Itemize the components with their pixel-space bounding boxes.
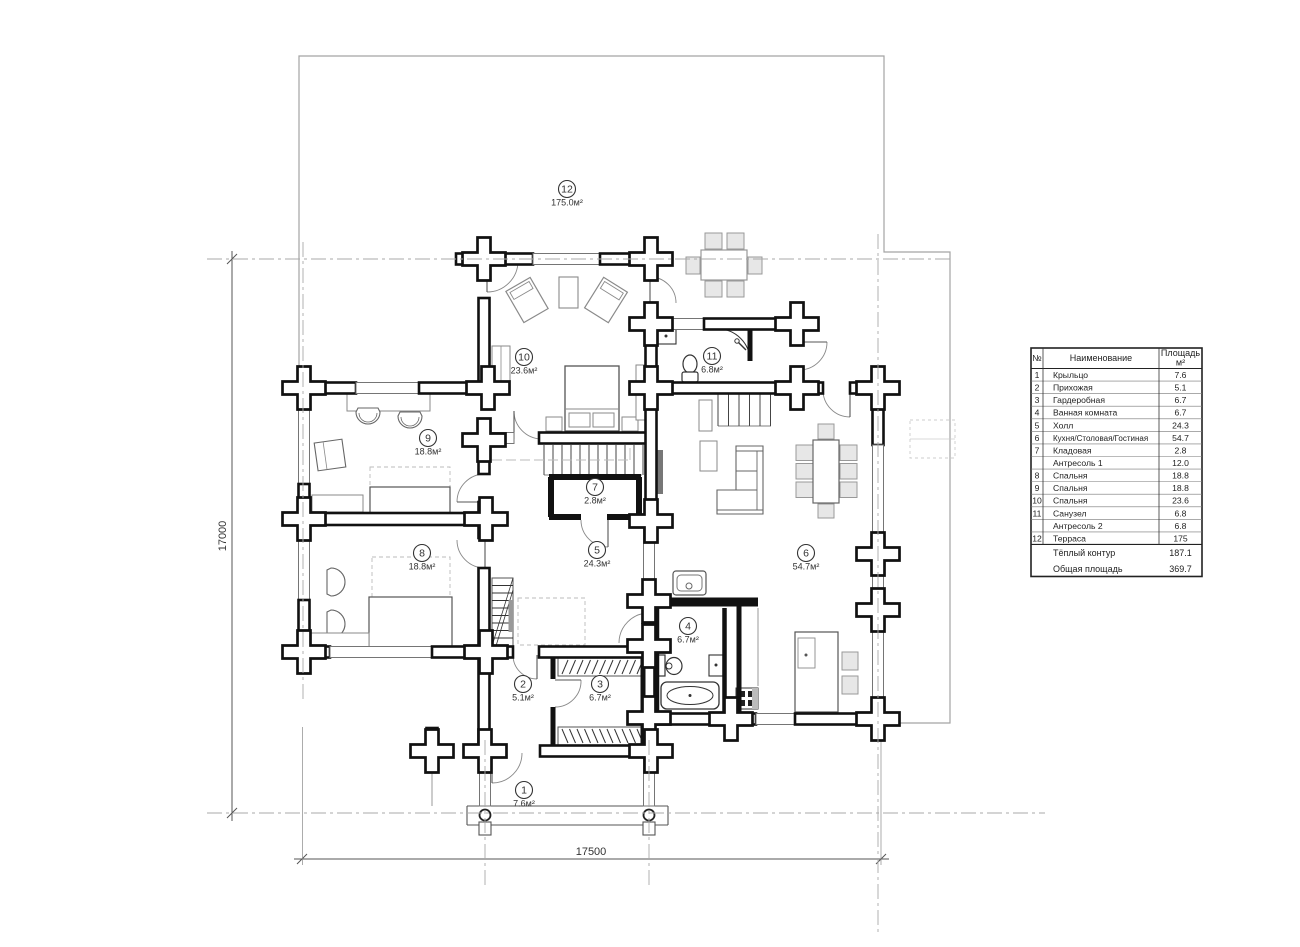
svg-text:Терраса: Терраса [1053,533,1086,543]
svg-text:Ванная комната: Ванная комната [1053,408,1118,418]
svg-text:2.8м²: 2.8м² [584,496,606,506]
svg-text:Спальня: Спальня [1053,471,1088,481]
svg-text:6.8: 6.8 [1175,521,1187,531]
svg-text:6.8м²: 6.8м² [701,365,723,375]
svg-text:18.8: 18.8 [1172,471,1189,481]
svg-text:18.8м²: 18.8м² [409,562,436,572]
svg-text:5: 5 [1035,420,1040,430]
svg-text:4: 4 [1035,408,1040,418]
svg-text:9: 9 [1035,483,1040,493]
svg-text:Наименование: Наименование [1070,353,1132,363]
svg-text:2.8: 2.8 [1175,445,1187,455]
svg-text:7: 7 [1035,445,1040,455]
svg-text:3: 3 [597,679,603,691]
svg-text:3: 3 [1035,395,1040,405]
svg-text:175: 175 [1173,533,1188,543]
svg-text:18.8: 18.8 [1172,483,1189,493]
svg-text:Прихожая: Прихожая [1053,383,1093,393]
svg-text:Кладовая: Кладовая [1053,445,1092,455]
svg-text:5.1: 5.1 [1175,383,1187,393]
svg-text:6.7: 6.7 [1175,408,1187,418]
svg-text:5.1м²: 5.1м² [512,693,534,703]
svg-text:12: 12 [561,184,573,196]
svg-text:6: 6 [803,548,809,560]
svg-text:Антресоль 1: Антресоль 1 [1053,458,1103,468]
svg-text:12: 12 [1032,533,1042,543]
svg-text:7.6: 7.6 [1175,370,1187,380]
svg-text:1: 1 [521,785,527,797]
svg-text:м²: м² [1176,358,1185,368]
svg-text:11: 11 [707,351,718,363]
svg-text:1: 1 [1035,370,1040,380]
svg-text:10: 10 [518,352,530,364]
svg-text:54.7: 54.7 [1172,433,1189,443]
svg-text:№: № [1032,353,1041,363]
svg-text:Кухня/Столовая/Гостиная: Кухня/Столовая/Гостиная [1053,434,1148,443]
svg-text:6.8: 6.8 [1175,508,1187,518]
svg-text:6.7: 6.7 [1175,395,1187,405]
svg-text:8: 8 [419,548,425,560]
svg-text:7: 7 [592,482,598,494]
svg-text:54.7м²: 54.7м² [793,562,820,572]
svg-text:369.7: 369.7 [1169,564,1192,574]
svg-text:4: 4 [685,621,691,633]
svg-text:10: 10 [1032,496,1042,506]
svg-text:2: 2 [1035,383,1040,393]
svg-text:11: 11 [1033,508,1042,518]
svg-text:7.6м²: 7.6м² [513,799,535,809]
svg-text:18.8м²: 18.8м² [415,447,442,457]
svg-text:6.7м²: 6.7м² [589,693,611,703]
svg-text:24.3: 24.3 [1172,420,1189,430]
svg-text:Холл: Холл [1053,420,1073,430]
svg-text:Санузел: Санузел [1053,508,1086,518]
svg-text:Крыльцо: Крыльцо [1053,370,1088,380]
svg-text:17500: 17500 [576,846,607,858]
svg-text:17000: 17000 [217,521,229,552]
svg-text:5: 5 [594,545,600,557]
svg-text:Спальня: Спальня [1053,483,1088,493]
svg-text:Площадь: Площадь [1161,348,1200,358]
svg-text:2: 2 [520,679,526,691]
svg-text:12.0: 12.0 [1172,458,1189,468]
svg-text:Антресоль 2: Антресоль 2 [1053,521,1103,531]
svg-text:175.0м²: 175.0м² [551,198,583,208]
svg-text:Гардеробная: Гардеробная [1053,395,1105,405]
svg-text:9: 9 [425,433,431,445]
svg-text:6: 6 [1035,433,1040,443]
svg-text:Общая площадь: Общая площадь [1053,564,1123,574]
svg-text:Тёплый контур: Тёплый контур [1053,548,1115,558]
svg-text:24.3м²: 24.3м² [584,559,611,569]
svg-text:6.7м²: 6.7м² [677,635,699,645]
svg-text:8: 8 [1035,471,1040,481]
svg-text:Спальня: Спальня [1053,496,1088,506]
svg-text:23.6: 23.6 [1172,496,1189,506]
svg-text:23.6м²: 23.6м² [511,366,538,376]
svg-text:187.1: 187.1 [1169,548,1192,558]
